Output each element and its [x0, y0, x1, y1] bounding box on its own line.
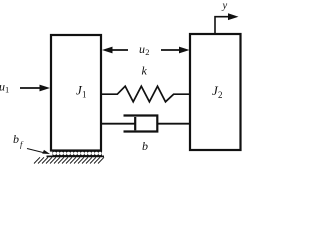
svg-text:2: 2: [145, 47, 149, 57]
svg-text:y: y: [222, 1, 228, 12]
svg-text:b: b: [13, 132, 19, 146]
svg-text:k: k: [142, 64, 148, 78]
arrow u1: [20, 85, 50, 92]
arrow u2 right: [161, 47, 190, 54]
label bf: [13, 132, 24, 149]
mass J1: [51, 35, 101, 151]
label J1: [76, 83, 87, 100]
svg-text:b: b: [142, 139, 148, 153]
ground line: [47, 155, 105, 157]
label y: [222, 1, 228, 12]
mass J2: [190, 34, 241, 150]
label J2: [212, 83, 223, 100]
label b: [142, 139, 148, 153]
label k: [142, 64, 148, 78]
spring k: [101, 86, 190, 102]
piston plate: [134, 117, 136, 130]
rollers bf: [53, 151, 103, 155]
left rod: [101, 123, 136, 125]
right rod: [157, 123, 189, 125]
label u1: [0, 80, 9, 95]
cylinder: [124, 116, 158, 132]
svg-text:1: 1: [82, 90, 87, 100]
arrow y: [215, 13, 239, 33]
damper b: [101, 116, 190, 132]
ground hatching: [34, 157, 104, 163]
label u2: [139, 42, 149, 57]
svg-text:2: 2: [218, 90, 223, 100]
arrow bf: [27, 149, 50, 155]
svg-text:1: 1: [5, 85, 9, 95]
arrow u2 left: [102, 47, 128, 54]
svg-text:u: u: [139, 42, 145, 56]
